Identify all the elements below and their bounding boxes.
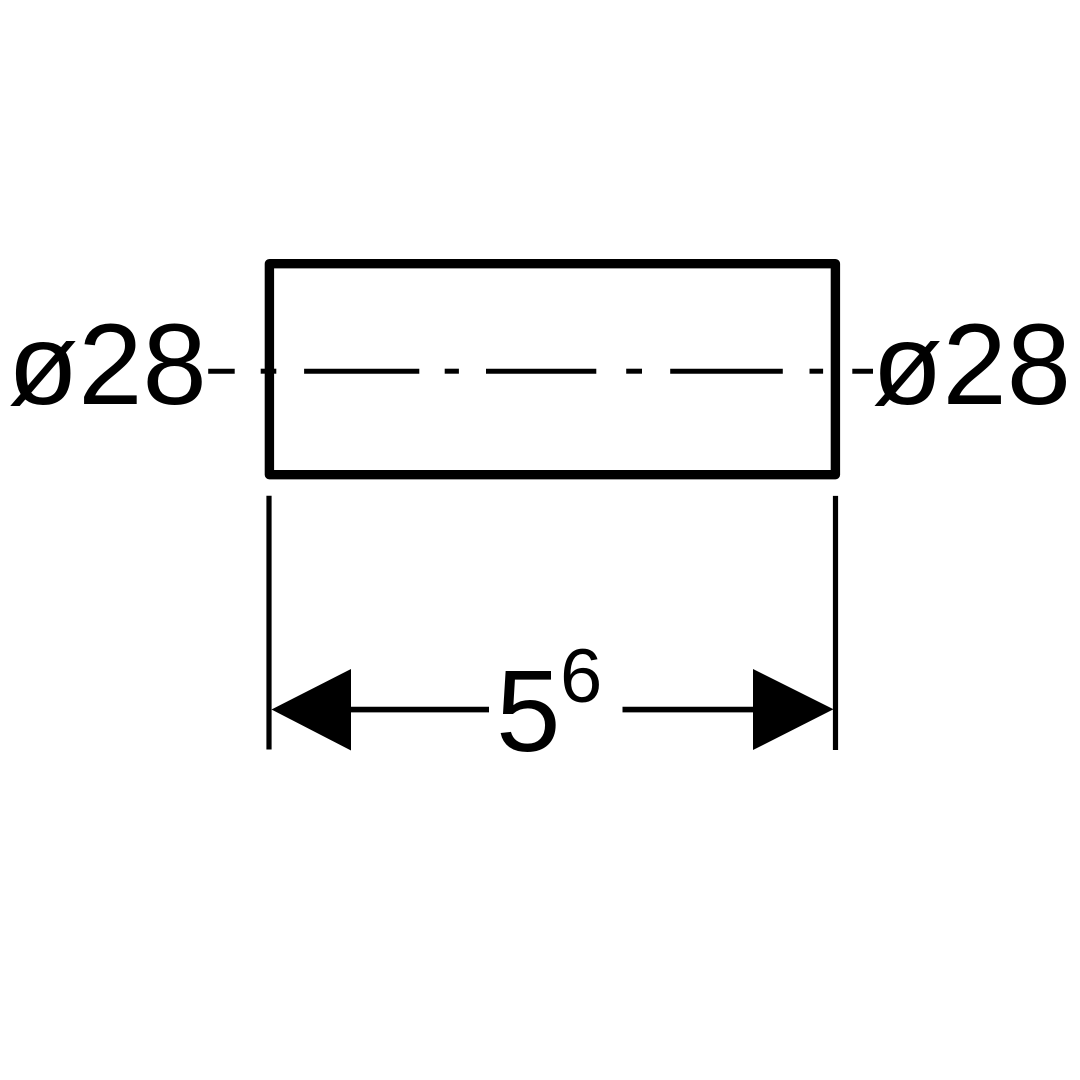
svg-text:ø28: ø28 bbox=[8, 300, 207, 429]
centerline dot segment 6 bbox=[626, 369, 642, 374]
centerline dot segment 8 bbox=[810, 369, 824, 374]
centerline dash segment 7 bbox=[670, 369, 783, 374]
extension line right bbox=[833, 496, 838, 750]
centerline dot segment 2 bbox=[261, 369, 277, 374]
part body rectangle (side view of sleeve) bbox=[269, 264, 835, 475]
svg-text:5: 5 bbox=[496, 646, 561, 776]
dimension line right segment bbox=[623, 707, 756, 713]
dimension line left segment bbox=[349, 707, 489, 713]
centerline dot segment 4 bbox=[445, 369, 459, 374]
centerline dash segment 1 bbox=[208, 369, 235, 374]
dimension arrow left bbox=[272, 669, 352, 751]
extension line left bbox=[266, 496, 271, 750]
dimension arrow right bbox=[753, 669, 834, 750]
svg-text:6: 6 bbox=[560, 634, 602, 719]
centerline dash segment 9 bbox=[852, 369, 873, 374]
centerline dash segment 5 bbox=[486, 369, 596, 374]
centerline dash segment 3 bbox=[304, 369, 419, 374]
svg-text:ø28: ø28 bbox=[872, 300, 1071, 429]
